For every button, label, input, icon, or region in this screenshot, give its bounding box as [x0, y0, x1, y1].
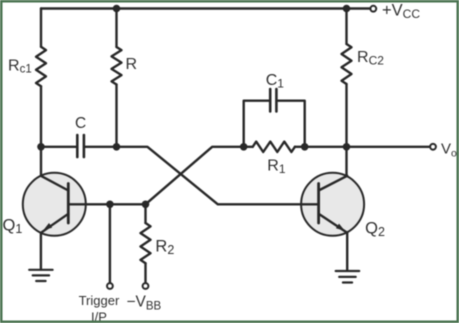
- svg-text:Trigger: Trigger: [79, 293, 120, 308]
- svg-text:R: R: [126, 56, 138, 73]
- svg-text:C: C: [75, 115, 86, 132]
